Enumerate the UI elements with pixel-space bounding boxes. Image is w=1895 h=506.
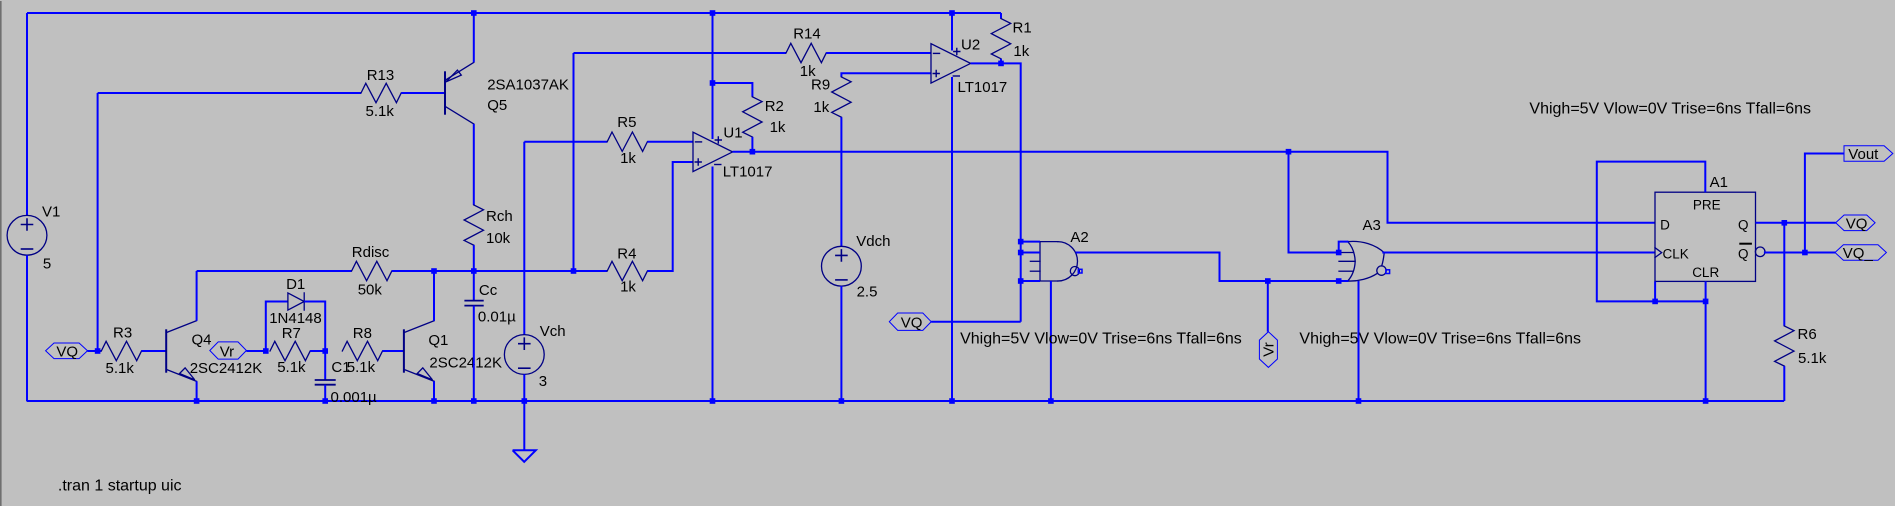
wire Vch bottom — [523, 374, 525, 401]
resistor R2 — [743, 97, 762, 137]
svg-text:LT1017: LT1017 — [723, 163, 773, 180]
svg-text:R6: R6 — [1798, 326, 1817, 343]
junction Rch/Cc node — [471, 268, 477, 274]
label D1 — [286, 276, 305, 293]
wire Rdisc row left — [197, 270, 352, 272]
wire A1 bottom-left pin — [1654, 281, 1656, 301]
transistor Q1 — [404, 321, 434, 382]
value 1k (R5) — [620, 150, 636, 167]
gate A3 body — [1348, 241, 1385, 281]
value 0.01u (Cc) — [478, 308, 516, 325]
flag Vr (vertical) — [1259, 332, 1277, 368]
wire node B vertical — [97, 93, 99, 351]
svg-text:D1: D1 — [286, 276, 305, 293]
svg-text:Rch: Rch — [486, 208, 513, 225]
label V1 — [42, 204, 60, 221]
ground symbol — [513, 450, 536, 462]
wire Vdch bottom — [840, 286, 842, 401]
svg-text:2SC2412K: 2SC2412K — [190, 360, 263, 377]
junction Qbar/Vout node — [1802, 250, 1808, 256]
svg-text:VQ: VQ — [901, 315, 923, 332]
pin label CLK — [1655, 247, 1689, 262]
svg-text:D: D — [1660, 218, 1670, 233]
svg-text:R8: R8 — [353, 325, 372, 342]
gate A2 input stub 4 — [1030, 270, 1040, 272]
flip-flop A1 Qbar bubble — [1755, 247, 1765, 257]
svg-text:50k: 50k — [358, 282, 383, 299]
wire C1 top lead — [324, 351, 326, 380]
svg-text:1k: 1k — [620, 150, 636, 167]
svg-text:5.1k: 5.1k — [277, 359, 306, 376]
value 1k (R14) — [800, 63, 816, 80]
gate A3 input stub 2 — [1339, 252, 1354, 254]
junction Q1 emitter-rail — [431, 398, 437, 404]
svg-text:1k: 1k — [813, 99, 829, 116]
value 5.1k (R3) — [106, 360, 135, 377]
resistor R13 — [361, 83, 401, 102]
text spice directive — [58, 478, 182, 495]
label Rch — [486, 208, 513, 225]
wire A3 output — [1382, 252, 1655, 254]
resistor R5 — [607, 132, 647, 151]
value 2.5 (Vdch) — [857, 284, 878, 301]
svg-text:.tran 1 startup uic: .tran 1 startup uic — [58, 478, 182, 495]
junction R7/D1/C1 node — [322, 348, 328, 354]
wire Vch top — [523, 142, 525, 335]
wire Q1 collector up — [433, 271, 435, 321]
svg-text:0.01µ: 0.01µ — [478, 308, 516, 325]
wire A2 input 2 — [1021, 252, 1040, 254]
wire R1 top from rail corner — [1000, 13, 1002, 19]
junction A3 in upper — [1336, 250, 1342, 256]
label R7 — [282, 325, 301, 342]
junction U1 Vplus-top rail — [710, 10, 716, 16]
diode D1 — [288, 293, 304, 310]
svg-text:PRE: PRE — [1693, 198, 1721, 213]
gate A2 input stub 3 — [1030, 260, 1040, 262]
label Cc — [479, 282, 498, 299]
label R6 — [1798, 326, 1817, 343]
svg-text:VQ: VQ — [1846, 216, 1868, 233]
wire R14 row left — [574, 52, 787, 54]
wire Q1 emitter down — [433, 381, 435, 401]
resistor R7 — [270, 341, 310, 360]
svg-text:1k: 1k — [770, 119, 786, 136]
value 3 (Vch) — [539, 373, 547, 390]
flag VQ_ (right) — [1835, 245, 1886, 263]
wire R7 to C1 node — [310, 350, 325, 352]
wire Qbar output — [1764, 252, 1835, 254]
wire U1 Vplus — [712, 13, 714, 139]
svg-text:VQ: VQ — [56, 344, 78, 361]
wire top supply rail — [27, 12, 1001, 14]
wire R1 bottom — [1000, 59, 1002, 64]
junction Q node — [1782, 220, 1788, 226]
wire A3 upper input feed — [1289, 152, 1339, 253]
capacitor Cc — [465, 301, 483, 306]
value 0.001u (C1) — [331, 389, 378, 406]
wire VQ to A2 feed — [931, 321, 1021, 323]
svg-text:V1: V1 — [42, 204, 60, 221]
wire Vch corner to R5 — [524, 141, 607, 143]
wire node X to R4 — [574, 270, 608, 272]
wire Q output — [1756, 222, 1836, 224]
label Q4 — [192, 332, 212, 349]
label U2 — [961, 37, 980, 54]
svg-text:U1: U1 — [723, 124, 742, 141]
resistor R14 — [786, 43, 826, 62]
label A2 — [1070, 229, 1088, 246]
flag VQ (right) — [1836, 215, 1875, 233]
svg-text:Q: Q — [1738, 247, 1749, 262]
label Vdch — [856, 233, 890, 250]
value 1k (R1) — [1013, 43, 1029, 60]
wire R2 bottom — [751, 137, 753, 152]
junction Vdch-rail — [839, 398, 845, 404]
junction A2 in2 — [1018, 250, 1024, 256]
value 5 (V1) — [43, 255, 51, 272]
svg-text:1k: 1k — [620, 278, 636, 295]
svg-text:R7: R7 — [282, 325, 301, 342]
wire Vout riser — [1805, 154, 1844, 253]
junction A2 gnd-rail — [1048, 398, 1054, 404]
junction Cc-rail — [471, 398, 477, 404]
wire bottom ground rail — [27, 400, 1785, 402]
svg-text:2SC2412K: 2SC2412K — [429, 355, 502, 372]
junction CLR-rail — [1703, 398, 1709, 404]
svg-text:CLK: CLK — [1663, 247, 1689, 262]
pin label D — [1660, 218, 1670, 233]
label A1 — [1710, 174, 1728, 191]
svg-text:A3: A3 — [1363, 217, 1381, 234]
wire node X vertical — [573, 53, 575, 271]
wire A3 input1 elbow — [1339, 242, 1349, 253]
svg-text:R13: R13 — [367, 67, 395, 84]
op-amp U2 — [931, 44, 971, 83]
label 2SA1037AK (Q5) — [487, 76, 569, 93]
svg-text:Q5: Q5 — [487, 97, 507, 114]
text A3 parameters — [1299, 331, 1581, 348]
wire Q5 emitter up — [473, 13, 475, 62]
resistor R9 — [832, 77, 851, 117]
wire D1 left vertical — [266, 302, 288, 352]
value 10k (Rch) — [486, 230, 511, 247]
svg-text:R3: R3 — [113, 325, 132, 342]
wire A2 input 5 — [1021, 280, 1040, 282]
wire R14 to U2 minus — [826, 52, 931, 54]
wire V1 top — [26, 13, 28, 215]
pin label PRE — [1693, 198, 1721, 213]
svg-text:0.001µ: 0.001µ — [331, 389, 378, 406]
wire Cc top lead — [473, 271, 475, 301]
wire ground stem — [523, 401, 525, 450]
value 1k (R9) — [813, 99, 829, 116]
wire D1 right — [304, 302, 325, 352]
svg-text:Rdisc: Rdisc — [352, 244, 390, 261]
voltage source V1 — [7, 215, 47, 255]
svg-text:5: 5 — [43, 255, 51, 272]
svg-text:CLR: CLR — [1692, 265, 1719, 280]
value LT1017 (U2) — [958, 79, 1008, 96]
resistor Rch — [464, 205, 483, 245]
junction U1 output node — [750, 149, 756, 155]
svg-text:3: 3 — [539, 373, 547, 390]
svg-text:Vout: Vout — [1848, 146, 1879, 163]
voltage source Vdch — [822, 246, 862, 286]
label U1 — [723, 124, 742, 141]
label R1 — [1013, 20, 1032, 37]
junction A3 gnd-rail — [1356, 398, 1362, 404]
wire Rdisc row mid — [434, 270, 474, 272]
svg-text:Vdch: Vdch — [856, 233, 890, 250]
junction Q4 emitter-rail — [194, 398, 200, 404]
wire C1 bottom lead — [324, 385, 326, 401]
wire Q4 collector up — [196, 271, 198, 321]
label Q1 — [428, 332, 448, 349]
junction CLR node — [1703, 299, 1709, 305]
svg-text:R1: R1 — [1013, 20, 1032, 37]
wire R6 bottom — [1783, 366, 1785, 401]
value 50k (Rdisc) — [358, 282, 383, 299]
gate A3 inverted output bubble — [1377, 253, 1390, 276]
junction Q1 collector-Rdisc row — [431, 268, 437, 274]
wire R4 to U1 plus — [647, 162, 693, 271]
wire R8 to Q1 base — [383, 350, 404, 352]
svg-text:U2: U2 — [961, 37, 980, 54]
junction Q5-top rail — [471, 10, 477, 16]
svg-text:1k: 1k — [1013, 43, 1029, 60]
svg-text:Cc: Cc — [479, 282, 498, 299]
junction A2 in1 — [1018, 239, 1024, 245]
wire R9 top — [841, 73, 931, 77]
op-amp U1 — [693, 132, 733, 171]
pin label Qbar — [1738, 244, 1751, 262]
pin label CLR — [1692, 265, 1719, 280]
svg-text:5.1k: 5.1k — [1798, 350, 1827, 367]
svg-text:2SA1037AK: 2SA1037AK — [487, 76, 569, 93]
svg-text:A1: A1 — [1710, 174, 1728, 191]
wire A3 lower stub — [1339, 280, 1349, 282]
label C1 — [331, 359, 350, 376]
label R14 — [793, 25, 821, 42]
wire Vr drop — [1267, 281, 1269, 332]
junction U2 Vminus-rail — [949, 398, 955, 404]
wire U1 output — [733, 151, 1289, 153]
svg-text:Vhigh=5V Vlow=0V Trise=6ns Tfa: Vhigh=5V Vlow=0V Trise=6ns Tfall=6ns — [1299, 331, 1581, 348]
wire VQ flag to node — [88, 350, 98, 352]
wire CLR to rail — [1705, 281, 1707, 401]
junction Vr node — [263, 348, 269, 354]
label R8 — [353, 325, 372, 342]
label R9 — [811, 77, 830, 94]
svg-text:5.1k: 5.1k — [347, 359, 376, 376]
svg-text:Vhigh=5V Vlow=0V Trise=6ns Tfa: Vhigh=5V Vlow=0V Trise=6ns Tfall=6ns — [1529, 101, 1811, 118]
svg-text:R5: R5 — [617, 114, 636, 131]
wire Cc bottom lead — [473, 306, 475, 401]
svg-text:LT1017: LT1017 — [958, 79, 1008, 96]
text A1 parameters — [1529, 101, 1811, 118]
pin label Q — [1738, 218, 1749, 233]
junction PRE/pin node — [1652, 299, 1658, 305]
svg-text:R14: R14 — [793, 25, 821, 42]
flag VQ (left) — [46, 343, 88, 361]
value 5.1k (R8) — [347, 359, 376, 376]
value 1k (R4) — [620, 278, 636, 295]
wire A3 ground pin — [1358, 281, 1360, 401]
transistor Q4 — [166, 321, 196, 382]
gate A2 inverted output bubble — [1070, 267, 1082, 276]
svg-text:2.5: 2.5 — [857, 284, 878, 301]
wire PRE loop — [1597, 162, 1706, 302]
junction U1 Vminus-rail — [710, 398, 716, 404]
wire Rdisc to Q1 node — [392, 270, 434, 272]
wire R13 row — [98, 92, 361, 94]
label Q5 — [487, 97, 507, 114]
wire U1out to D — [1289, 152, 1656, 223]
gate A2 body — [1040, 242, 1078, 281]
resistor R6 — [1775, 326, 1794, 366]
flag Vout — [1844, 146, 1893, 163]
transistor Q5 — [445, 62, 474, 124]
svg-text:R9: R9 — [811, 77, 830, 94]
junction node X on Rdisc row — [571, 268, 577, 274]
resistor R8 — [342, 341, 382, 360]
junction U1out-D branch — [1286, 149, 1292, 155]
wire Q5 collector to Rch — [473, 124, 475, 205]
wire U2 output — [971, 63, 1021, 321]
value 5.1k (R6) — [1798, 350, 1827, 367]
wire Vr flag to node — [246, 350, 265, 352]
wire U2 Vplus — [951, 13, 953, 51]
svg-text:Vr: Vr — [1261, 342, 1278, 356]
svg-text:5.1k: 5.1k — [106, 360, 135, 377]
label R3 — [113, 325, 132, 342]
label Rdisc — [352, 244, 390, 261]
wire R3 to Q4 base — [142, 350, 167, 352]
wire node to R3 — [98, 350, 102, 352]
resistor R4 — [607, 261, 647, 280]
gate A3 input stub 4 — [1339, 270, 1353, 272]
label Vch — [540, 323, 566, 340]
svg-text:Q4: Q4 — [192, 332, 212, 349]
value 2SC2412K (Q1) — [429, 355, 502, 372]
junction R2 tap on U1 Vplus — [710, 80, 716, 86]
junction A3 in lower — [1336, 278, 1342, 284]
label R4 — [617, 246, 636, 263]
svg-text:VQ_: VQ_ — [1843, 245, 1874, 262]
junction Vr drop node — [1265, 278, 1271, 284]
junction C1-rail — [322, 398, 328, 404]
wire Rdisc row right — [474, 270, 573, 272]
junction Vch-rail — [522, 398, 528, 404]
svg-text:Q1: Q1 — [428, 332, 448, 349]
gate A3 input stub 3 — [1339, 260, 1355, 262]
svg-text:10k: 10k — [486, 230, 511, 247]
junction U2 Vplus-top rail — [949, 10, 955, 16]
value 1k (R2) — [770, 119, 786, 136]
voltage source Vch — [504, 335, 544, 375]
capacitor C1 — [316, 380, 335, 385]
svg-text:5.1k: 5.1k — [366, 103, 395, 120]
value 5.1k (R7) — [277, 359, 306, 376]
wire R5 to U1 minus — [647, 141, 693, 143]
resistor R1 — [991, 19, 1010, 59]
wire V1 bottom — [26, 255, 28, 401]
wire Rch to node — [473, 245, 475, 271]
wire R2 top — [713, 83, 753, 97]
value LT1017 (U1) — [723, 163, 773, 180]
svg-text:R4: R4 — [617, 246, 636, 263]
flag Vr (left) — [210, 342, 247, 360]
left window border — [0, 1, 2, 506]
wire A2 ground pin — [1050, 281, 1052, 401]
value 1N4148 (D1) — [269, 310, 322, 327]
flip-flop A1 box — [1655, 192, 1756, 281]
resistor Rdisc — [352, 261, 392, 280]
wire U1 Vminus — [712, 167, 714, 402]
svg-text:Vch: Vch — [540, 323, 566, 340]
flag VQ (middle) — [889, 313, 931, 332]
wire Q to R6 — [1783, 223, 1785, 326]
svg-text:Vr: Vr — [220, 343, 234, 360]
wire A2 input 1 — [1021, 241, 1040, 243]
wire Q4 emitter down — [196, 381, 198, 401]
wire A2 output — [1076, 253, 1339, 282]
junction A2 in5 — [1018, 278, 1024, 284]
svg-text:Q: Q — [1738, 218, 1749, 233]
value 5.1k (R13) — [366, 103, 395, 120]
svg-text:A2: A2 — [1070, 229, 1088, 246]
junction U2 output node — [998, 61, 1004, 67]
text A2 parameters — [960, 331, 1242, 348]
svg-text:Vhigh=5V Vlow=0V Trise=6ns Tfa: Vhigh=5V Vlow=0V Trise=6ns Tfall=6ns — [960, 331, 1242, 348]
wire R13 to Q5 base — [401, 92, 445, 94]
label R13 — [367, 67, 395, 84]
value 2SC2412K (Q4) — [190, 360, 263, 377]
wire R9 to Vdch — [840, 117, 842, 246]
label A3 — [1363, 217, 1381, 234]
svg-text:R2: R2 — [765, 98, 784, 115]
wire U2 Vminus — [951, 77, 953, 401]
label R2 — [765, 98, 784, 115]
junction VQ/R3 node — [95, 348, 101, 354]
resistor R3 — [101, 341, 141, 360]
label R5 — [617, 114, 636, 131]
